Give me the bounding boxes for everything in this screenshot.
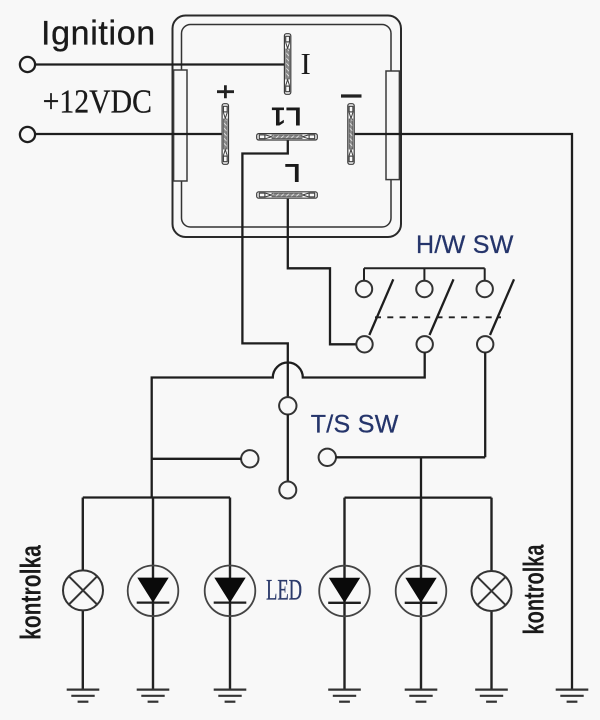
H/W SW1 bottom contact xyxy=(356,336,372,352)
ground LED2 xyxy=(214,690,247,702)
wire left bus to lamp kontrolka L xyxy=(82,498,84,690)
T/S SW left contact xyxy=(241,450,258,467)
pin label + xyxy=(217,85,234,98)
wire right bus to lamp kontrolka R xyxy=(490,498,492,689)
indicator lamp left (kontrolka) xyxy=(63,570,103,610)
svg-text:L1: L1 xyxy=(271,102,301,132)
wire ignition to pin I xyxy=(35,63,284,65)
T/S SW lever (neutral) xyxy=(287,415,289,482)
H/W SW3 bottom contact xyxy=(477,336,493,352)
wire left bus through LED2 to ground xyxy=(229,498,231,690)
H/W SW1 lever xyxy=(369,279,393,335)
svg-text:L: L xyxy=(284,158,300,188)
ground LED1 xyxy=(137,690,170,702)
LED 3 xyxy=(319,566,370,617)
wire right bus through LED3 to ground xyxy=(343,498,345,689)
relay pin + xyxy=(222,104,228,165)
T/S SW bottom contact xyxy=(279,482,296,499)
wire pin L1 down-left-down to T/S common xyxy=(242,141,287,398)
H/W SW mechanical link (dashed) xyxy=(375,316,501,318)
left lamp bus xyxy=(83,496,230,498)
wire pin - to right side and down to ground xyxy=(355,134,572,689)
wire T/S left contact to left feed xyxy=(152,458,241,460)
ground relay minus xyxy=(556,690,589,702)
H/W SW2 top contact xyxy=(416,281,432,297)
H/W SW1 top contact xyxy=(356,281,372,297)
svg-text:kontrolka: kontrolka xyxy=(15,544,47,640)
ground LED4 xyxy=(405,690,438,702)
H/W SW3 top contact xyxy=(477,281,493,297)
wire right bus through LED4 to ground xyxy=(420,498,422,689)
terminal circle +12VDC xyxy=(20,127,35,142)
wire SW3 bottom down to T/S right wire xyxy=(484,353,486,458)
T/S SW right contact xyxy=(319,449,336,466)
relay outer case xyxy=(173,16,402,238)
relay right side tab xyxy=(386,71,399,180)
relay inner case xyxy=(182,25,392,228)
svg-text:+12VDC: +12VDC xyxy=(43,83,152,120)
wire T/S right contact to right feed xyxy=(336,457,485,497)
relay pin - xyxy=(348,104,354,165)
wire pin L2 down to H/W SW1 bottom xyxy=(288,199,356,345)
ground lamp right xyxy=(475,690,508,702)
svg-text:LED: LED xyxy=(266,574,302,606)
right lamp bus xyxy=(345,496,492,498)
relay pin L2 xyxy=(257,192,318,198)
pin label - xyxy=(341,94,362,97)
H/W SW2 lever xyxy=(430,279,454,335)
ground LED3 xyxy=(328,690,361,702)
svg-text:kontrolka: kontrolka xyxy=(519,544,550,634)
indicator lamp right (kontrolka) xyxy=(472,571,512,611)
svg-text:I: I xyxy=(301,46,311,81)
LED 4 xyxy=(396,566,447,617)
wire left bus through LED1 to ground xyxy=(152,498,154,690)
wire SW2 bottom to left feed (with hop over T/S common wire) xyxy=(152,353,425,498)
relay pin L1 xyxy=(257,134,318,140)
relay pin I xyxy=(284,34,290,95)
ground lamp left xyxy=(67,690,100,702)
svg-text:T/S SW: T/S SW xyxy=(311,411,399,439)
relay left side tab xyxy=(174,70,187,181)
terminal circle ignition xyxy=(20,57,35,72)
H/W SW3 lever xyxy=(490,279,514,335)
svg-text:H/W SW: H/W SW xyxy=(416,231,514,259)
svg-text:Ignition: Ignition xyxy=(41,15,156,53)
wire +12VDC to pin + xyxy=(35,133,222,135)
T/S SW common contact xyxy=(279,397,296,414)
LED 1 xyxy=(128,566,179,617)
LED 2 xyxy=(205,566,256,617)
H/W switch top bus xyxy=(364,268,485,281)
H/W SW2 bottom contact xyxy=(417,336,433,352)
